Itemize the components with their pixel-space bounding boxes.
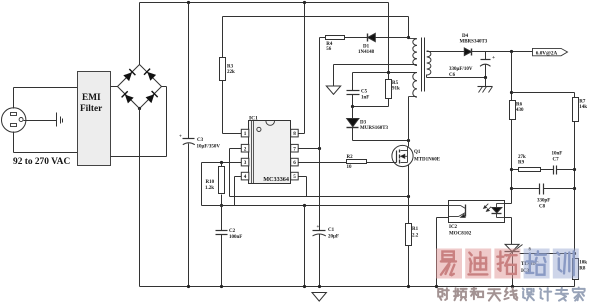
node [511,285,514,288]
wire pin4 [235,176,242,178]
wire [201,163,203,206]
resistor R4 56 [326,36,345,40]
resistor R6 430 [510,101,516,120]
node [220,204,223,207]
wire [408,246,410,287]
watermark char 2 [465,249,491,279]
wire drain [408,141,410,147]
capacitor C1 20uF [313,230,326,232]
watermark subtitle char 9 [573,288,585,301]
wire [139,109,141,287]
svg-text:C3: C3 [197,138,204,143]
wire [472,51,533,53]
wire [511,120,513,204]
bridge diode top-left [123,72,132,81]
wire pin7 [299,148,320,150]
wire [512,188,540,190]
svg-text:6.0V@2A: 6.0V@2A [536,50,558,56]
node [351,105,354,108]
IC1 pin 5 [291,172,299,180]
wire [416,65,418,66]
svg-text:R10: R10 [206,180,215,185]
svg-text:430: 430 [516,108,524,113]
transformer aux winding [416,72,418,74]
wire bottom ground rail [140,286,575,288]
node [138,107,141,110]
resistor R5 91k [386,80,392,99]
node [573,168,576,171]
opto LED [497,203,505,205]
svg-text:R2: R2 [347,155,354,160]
wire [222,81,224,134]
wire [14,87,78,89]
svg-text:10k: 10k [579,261,587,266]
watermark subtitle char 4 [488,289,501,300]
svg-text:MBRS340T3: MBRS340T3 [460,40,488,45]
ground symbol [326,86,340,94]
watermark subtitle char 7 [540,288,551,301]
svg-text:C2: C2 [229,229,236,234]
transistor Q1 MTD1N60E [392,145,413,166]
wire [485,78,487,87]
wire pin8 [299,133,305,135]
EMI Filter block [78,72,111,166]
svg-text:2: 2 [244,146,247,152]
watermark subtitle char 3 [471,288,484,299]
wire [222,17,224,58]
watermark subtitle char 1 [438,288,449,300]
IC1 pin 2 [241,144,249,152]
capacitor C2 100nF [216,230,228,232]
node [220,285,223,288]
wire [436,218,438,287]
svg-text:330pF: 330pF [537,199,550,204]
wire [320,37,326,39]
wire [353,140,409,142]
wire [221,235,223,287]
capacitor C3 10uF/350V [183,138,195,140]
svg-text:+: + [492,55,495,61]
node [435,285,438,288]
watermark char 1 [436,249,462,279]
wire [13,88,15,109]
shunt regulator IC3 TL431C [505,244,519,251]
node [407,195,410,198]
node [407,139,410,142]
svg-text:C7: C7 [553,158,560,163]
wire [574,280,576,287]
wire [188,3,190,139]
svg-text:Q1: Q1 [414,150,421,155]
node [220,161,223,164]
svg-text:1.2k: 1.2k [205,186,214,191]
svg-text:20µF: 20µF [328,235,339,240]
wire pin5 [299,176,307,178]
AC plug J1 [2,108,26,132]
svg-text:Filter: Filter [80,104,102,114]
svg-text:C5: C5 [361,90,368,95]
svg-text:D4: D4 [462,34,469,39]
svg-text:C6: C6 [449,73,456,78]
resistor R8 10k [573,259,579,280]
resistor R10 1.2k [219,167,225,194]
wire [345,37,368,39]
IC1 pin 7 [291,144,299,152]
watermark char 5 [553,249,579,279]
node [303,204,306,207]
node [510,91,513,94]
wire [505,203,512,205]
resistor R3 22k [220,58,226,81]
output flag 6.0V@2A [533,48,568,55]
svg-text:R8: R8 [579,267,586,272]
wire [162,86,167,88]
watermark char 4 [524,249,550,279]
wire [427,51,465,53]
svg-text:IC2: IC2 [449,225,458,230]
node [303,285,306,288]
svg-text:27k: 27k [518,155,526,160]
wire [319,149,321,231]
watermark subtitle char 5 [504,288,517,300]
IC1 pin 6 [291,158,299,166]
node [318,285,321,288]
wire [353,106,389,108]
wire pin2 [230,148,242,150]
wire [408,17,410,39]
wire ref [520,253,575,255]
svg-text:R1: R1 [412,227,419,232]
IC1 pin 4 [241,172,249,180]
svg-text:R5: R5 [392,81,399,86]
node [187,1,190,4]
watermark subtitle char 8 [556,288,568,301]
wire [574,122,576,259]
node [387,71,390,74]
svg-text:10µF/350V: 10µF/350V [197,145,221,150]
wire aux line [223,16,409,18]
svg-text:4: 4 [244,174,247,180]
IC1 pin 3 [241,158,249,166]
opto phototransistor [465,205,467,217]
svg-text:6: 6 [293,160,296,166]
wire [557,169,575,171]
watermark subtitle char 2 [454,288,467,300]
wire [376,37,409,39]
node [510,50,513,53]
wire [111,86,118,88]
svg-text:C8: C8 [539,204,546,209]
svg-text:MC33364: MC33364 [263,176,289,183]
wire [333,65,335,87]
svg-text:EMI: EMI [82,93,101,103]
svg-text:92 to 270 VAC: 92 to 270 VAC [13,157,70,167]
wire top rail +DC bus [140,2,389,4]
earth ground (output) [478,86,493,88]
wire [426,75,428,78]
svg-text:MOC8102: MOC8102 [449,231,472,236]
resistor R2 10 [347,160,367,164]
svg-text:7: 7 [293,146,296,152]
svg-text:10nF: 10nF [552,152,563,157]
resistor R9 27k [519,168,541,172]
wire gate [367,162,397,164]
node [303,1,306,4]
transformer primary winding [409,38,417,40]
svg-text:8: 8 [293,131,296,137]
wire [221,206,223,231]
wire [14,152,78,154]
svg-text:14k: 14k [579,105,587,110]
node [510,168,513,171]
svg-text:1nF: 1nF [361,95,369,100]
resistor R7 14k [573,98,579,122]
wire [505,217,512,219]
wire [388,3,390,73]
wire tap line [353,72,417,74]
wire [511,52,513,101]
svg-text:R7: R7 [579,100,586,105]
wire sense line [230,196,409,198]
node [407,285,410,288]
svg-text:56: 56 [326,47,332,52]
diode D4 MBRS340T3 [464,48,471,56]
capacitor C7 10nF [553,166,555,175]
capacitor C5 1nF [352,73,354,91]
svg-text:1N4148: 1N4148 [358,50,375,55]
diode D1 1N4148 [367,34,369,42]
earth ground (plug) [56,113,58,127]
wire source [408,165,410,167]
bridge diode bottom-right [146,94,155,103]
node D1-winding junction [407,36,410,39]
svg-text:IC1: IC1 [249,115,258,121]
IC1 pin 8 [291,129,299,137]
svg-text:MTD1N60E: MTD1N60E [414,158,441,163]
wire [304,206,306,287]
wire [437,217,449,219]
wire [319,38,321,149]
wire pin6 [299,162,347,164]
svg-text:2.2: 2.2 [412,233,419,238]
wire pin3 [202,162,242,164]
svg-text:22k: 22k [227,70,235,75]
wire [544,188,575,190]
wire [334,64,417,66]
wire [188,144,190,287]
svg-text:+: + [179,135,182,140]
wire [221,163,223,167]
wire [512,169,519,171]
svg-text:R6: R6 [516,103,523,108]
svg-text:10: 10 [347,165,353,170]
wire pin1 [223,133,242,135]
optocoupler IC2 MOC8102 [449,201,505,223]
IC1 pin 1 [241,129,249,137]
wire feedback line [202,205,449,207]
svg-text:91k: 91k [392,87,400,92]
node [187,285,190,288]
node [318,147,321,150]
wire [408,97,410,141]
transformer secondary winding [427,51,431,75]
svg-text:100nF: 100nF [229,235,242,240]
svg-text:5: 5 [293,174,296,180]
resistor R1 2.2 [406,224,412,246]
watermark subtitle char 6 [523,289,534,301]
wire [319,235,321,287]
capacitor C8 330pF [539,184,541,195]
wire divider link [512,92,575,94]
svg-text:MURS160T3: MURS160T3 [360,126,389,131]
bridge rectifier diamond [118,65,140,87]
svg-text:3: 3 [244,160,247,166]
svg-text:1: 1 [244,131,247,137]
svg-text:D3: D3 [360,121,367,126]
bridge diode bottom-left [125,95,134,104]
svg-text:C1: C1 [328,228,335,233]
ground symbol [312,293,326,302]
capacitor C6 330uF/10V [485,52,487,60]
svg-text:R9: R9 [518,161,525,166]
opto light arrows [485,204,489,208]
wire [512,252,514,287]
wire [13,132,15,153]
svg-text:+: + [317,225,320,230]
watermark char 3 [494,249,520,279]
diode D3 MURS160T3 [352,107,354,119]
transformer core [421,38,423,92]
op-amp IC1 MC33364 controller [249,121,291,184]
svg-text:R3: R3 [227,65,234,70]
wire [139,3,141,65]
bridge diode top-right [147,72,156,81]
svg-text:D1: D1 [363,45,370,50]
node [484,76,487,79]
svg-text:330µF/10V: 330µF/10V [449,67,473,72]
wire [24,120,57,122]
